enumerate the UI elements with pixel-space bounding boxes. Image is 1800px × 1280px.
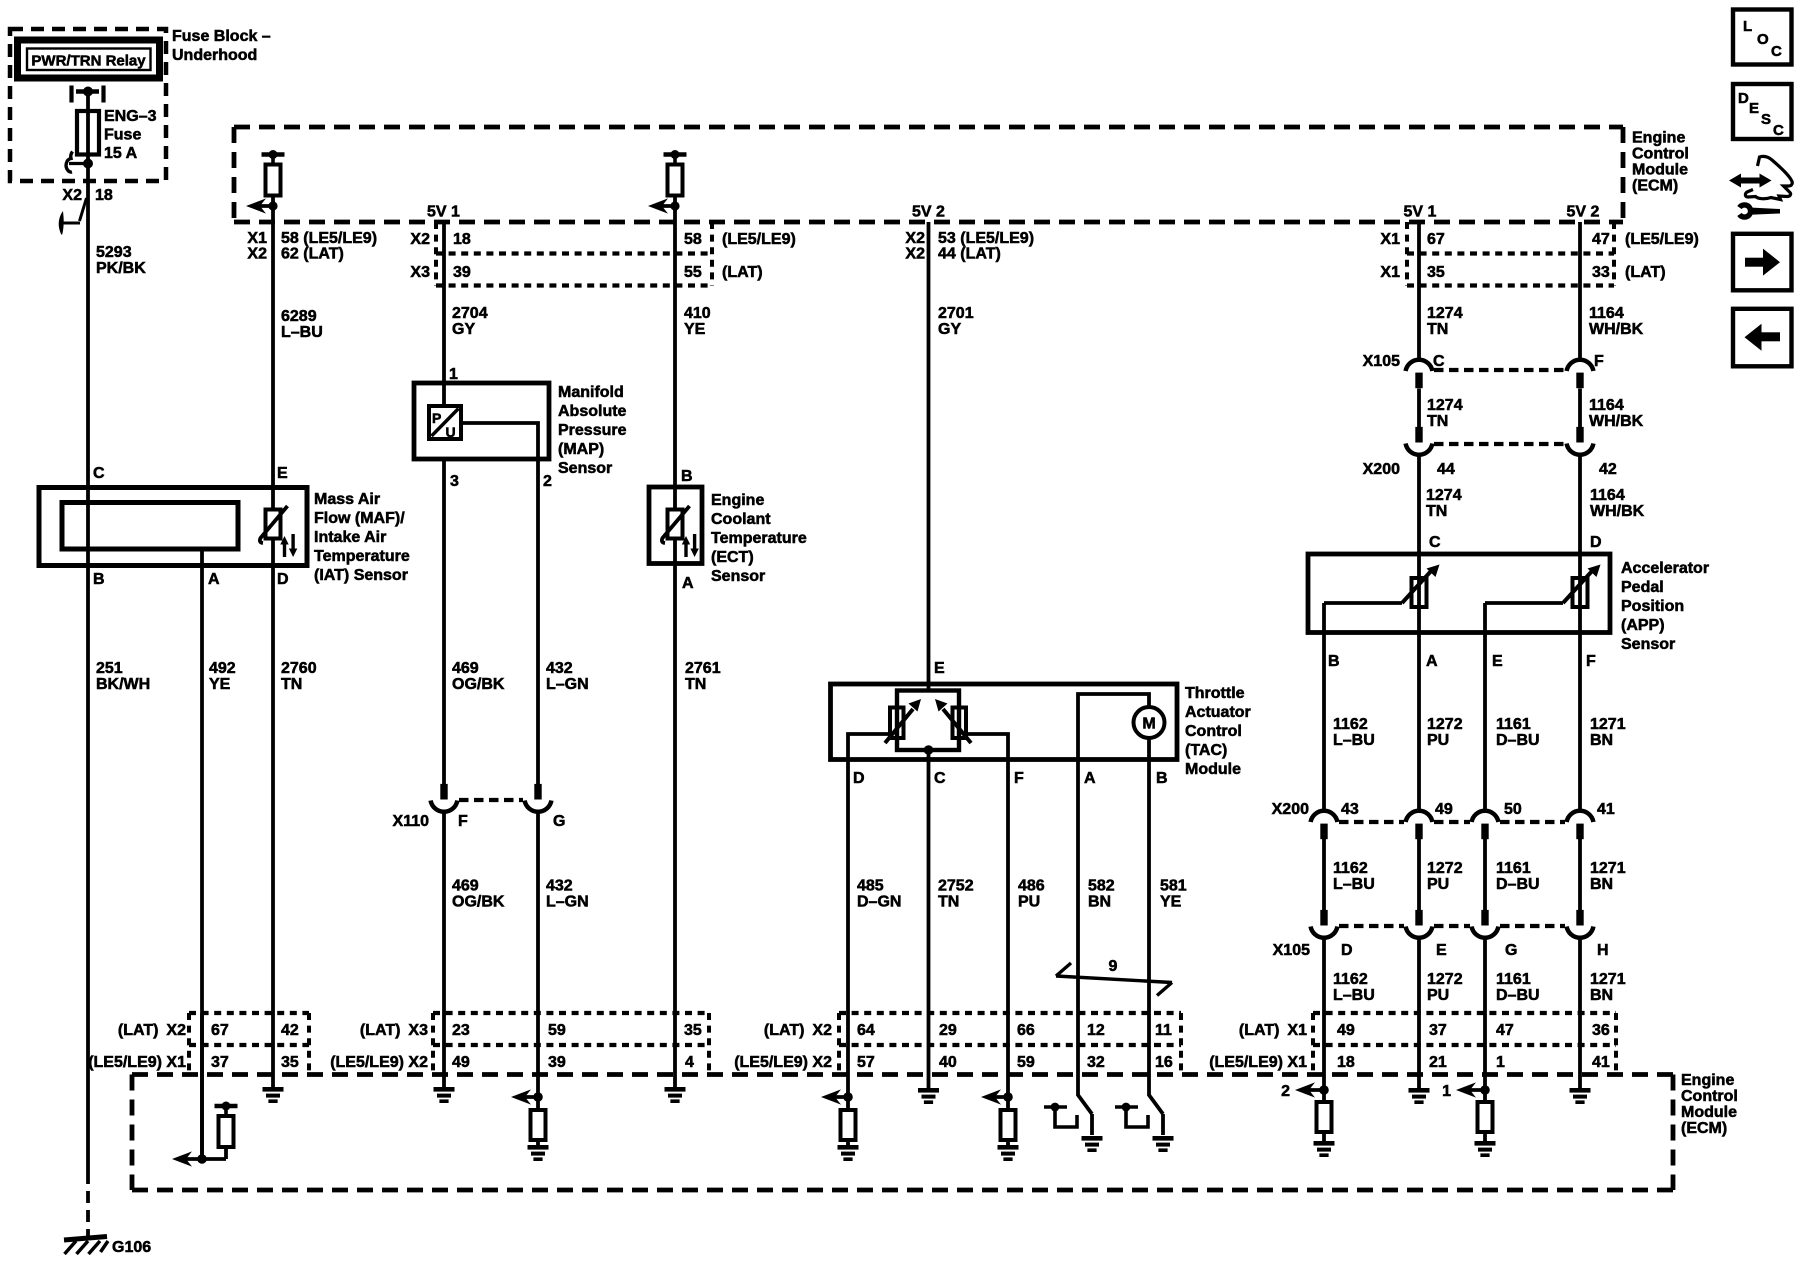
X200 dashed link top [1434,442,1565,446]
svg-text:1: 1 [449,366,458,383]
svg-text:C: C [93,465,105,482]
svg-text:D: D [1738,90,1749,107]
svg-text:Control: Control [1632,146,1689,163]
connector X200 41 [1567,811,1594,822]
svg-text:E: E [1749,100,1759,117]
svg-text:Mass Air: Mass Air [314,491,380,508]
ground under 1271 [1578,1074,1582,1088]
svg-text:E: E [277,465,288,482]
TAC D pin line [848,734,890,760]
svg-text:1164: 1164 [1590,487,1625,504]
svg-text:1161: 1161 [1496,971,1531,988]
svg-text:485: 485 [857,878,884,895]
svg-text:432: 432 [546,660,573,677]
svg-text:A: A [1084,770,1096,787]
svg-text:BK/WH: BK/WH [96,676,150,693]
wire 5293 PK/BK down to MAF pin C [86,164,90,488]
svg-text:(LE5/LE9) X2: (LE5/LE9) X2 [734,1054,832,1071]
svg-text:OG/BK: OG/BK [452,676,505,693]
svg-text:O: O [1757,31,1769,48]
svg-text:(LE5/LE9) X1: (LE5/LE9) X1 [88,1054,186,1071]
svg-text:66: 66 [1017,1022,1035,1039]
ground under 2761 [673,1074,677,1087]
junction arrow fuse ground under 486 [1006,1074,1010,1110]
svg-text:Throttle: Throttle [1185,685,1245,702]
svg-text:1164: 1164 [1589,305,1624,322]
wire 5V1 2704 GY from ECM to MAP pin 1 [442,222,446,383]
svg-text:TN: TN [1426,503,1447,520]
svg-text:4: 4 [685,1054,694,1071]
wire 2760 TN MAF pin D down [271,566,275,1014]
svg-text:X1: X1 [1380,231,1400,248]
connector X200 49 [1406,811,1433,822]
svg-text:B: B [1156,770,1168,787]
wire 410 YE to ECT pin B [673,206,677,487]
svg-text:(IAT) Sensor: (IAT) Sensor [314,567,408,584]
connector X200 44 [1415,427,1422,443]
svg-text:X2: X2 [905,246,925,263]
svg-text:37: 37 [211,1054,229,1071]
svg-text:44 (LAT): 44 (LAT) [938,246,1001,263]
svg-text:(ECM): (ECM) [1681,1120,1727,1137]
svg-text:PWR/TRN Relay: PWR/TRN Relay [31,53,146,70]
wire 1274 TN upper [1417,222,1421,360]
svg-text:(ECM): (ECM) [1632,178,1678,195]
right connector row box X1 67/35 47/33 [1405,222,1409,286]
IAT thermistor [271,488,275,511]
svg-text:Engine: Engine [711,492,764,509]
junction 1 arrow fuse ground under 1161 [1483,1074,1487,1102]
TAC right variable resistor [953,708,967,739]
svg-text:(LAT): (LAT) [1625,264,1666,281]
svg-text:L–BU: L–BU [1333,987,1375,1004]
junction arrow fuse ground under 485 [846,1074,850,1110]
svg-text:44: 44 [1437,461,1455,478]
svg-text:29: 29 [939,1022,957,1039]
svg-text:(LAT) X3: (LAT) X3 [360,1022,428,1039]
svg-text:18: 18 [1337,1054,1355,1071]
svg-text:X105: X105 [1363,353,1400,370]
wire 581 YE [1147,760,1151,1014]
wire 582 BN [1076,760,1080,1014]
svg-text:GY: GY [452,321,475,338]
svg-text:64: 64 [857,1022,875,1039]
svg-text:D: D [853,770,865,787]
connector row box X2/X3 18 39 [434,222,438,286]
svg-text:582: 582 [1088,878,1115,895]
wire 2701 GY 5V2 to TAC pin E [927,222,931,692]
svg-text:1271: 1271 [1590,971,1626,988]
svg-text:2: 2 [1281,1083,1290,1100]
arrow left at 410 fuse [648,198,668,213]
svg-text:40: 40 [939,1054,957,1071]
wire 2752 TN [927,750,931,1013]
svg-text:B: B [1328,653,1340,670]
wire 1164 WH/BK upper [1578,222,1582,360]
svg-text:(LAT) X2: (LAT) X2 [118,1022,186,1039]
svg-text:BN: BN [1590,987,1613,1004]
svg-text:12: 12 [1087,1022,1105,1039]
svg-text:2752: 2752 [938,878,974,895]
connector X200 42 [1576,427,1583,443]
svg-text:(APP): (APP) [1621,617,1665,634]
svg-text:X1: X1 [1380,264,1400,281]
svg-text:TN: TN [685,676,706,693]
svg-text:BN: BN [1590,732,1613,749]
svg-text:62 (LAT): 62 (LAT) [281,246,344,263]
svg-text:A: A [208,571,220,588]
svg-text:3: 3 [450,473,459,490]
TAC F pin line [966,734,1008,760]
svg-text:36: 36 [1592,1022,1610,1039]
svg-text:TN: TN [281,676,302,693]
svg-text:TN: TN [1427,413,1448,430]
X105 dashed link top [1434,368,1565,372]
svg-text:2760: 2760 [281,660,317,677]
svg-text:D: D [277,571,289,588]
svg-text:18: 18 [453,231,471,248]
wire 2761 TN ECT pin A down [673,564,677,1014]
svg-text:Sensor: Sensor [558,460,612,477]
svg-text:2701: 2701 [938,305,974,322]
svg-text:581: 581 [1160,878,1187,895]
svg-text:Engine: Engine [1681,1072,1734,1089]
svg-text:Temperature: Temperature [314,548,410,565]
svg-text:1272: 1272 [1427,860,1463,877]
svg-text:(LE5/LE9) X2: (LE5/LE9) X2 [330,1054,428,1071]
svg-text:41: 41 [1592,1054,1610,1071]
icon arrow left box [1733,309,1792,367]
svg-text:16: 16 [1155,1054,1173,1071]
connector X105 C [1406,360,1433,371]
TAC module box [831,684,1178,760]
svg-text:F: F [1594,353,1604,370]
junction 2 arrow fuse ground under 1162 [1322,1074,1326,1102]
MAP internal wire pin2 [461,423,538,459]
svg-text:469: 469 [452,660,479,677]
svg-text:E: E [1492,653,1503,670]
svg-text:S: S [1761,111,1771,128]
svg-text:1161: 1161 [1496,860,1531,877]
svg-text:486: 486 [1018,878,1045,895]
wire 1162 L-BU [1322,633,1326,812]
svg-text:WH/BK: WH/BK [1589,413,1644,430]
icon arrow right box [1733,234,1792,290]
svg-text:35: 35 [684,1022,702,1039]
svg-text:Accelerator: Accelerator [1621,560,1709,577]
wire 432 L-GN MAP pin2 to X110 [536,459,540,785]
svg-text:49: 49 [452,1054,470,1071]
svg-text:Underhood: Underhood [172,47,257,64]
svg-text:(LAT): (LAT) [722,264,763,281]
ECT thermistor [673,487,677,510]
ECM top dashed box [234,125,1623,130]
svg-text:(ECT): (ECT) [711,549,754,566]
row pass wires [200,1013,204,1074]
svg-text:Sensor: Sensor [711,568,765,585]
svg-text:50: 50 [1504,801,1522,818]
svg-text:1162: 1162 [1333,716,1368,733]
svg-text:35: 35 [281,1054,299,1071]
svg-text:BN: BN [1590,876,1613,893]
switch symbol under 582 [1076,1074,1080,1096]
svg-text:67: 67 [211,1022,229,1039]
svg-text:410: 410 [684,305,711,322]
ECT sensor box [649,487,702,564]
svg-text:Manifold: Manifold [558,384,624,401]
connector X200 43 [1311,811,1338,822]
ground under 2752 [927,1074,931,1088]
svg-text:YE: YE [684,321,706,338]
svg-text:C: C [1429,534,1441,551]
svg-text:TN: TN [1427,321,1448,338]
svg-text:C: C [934,770,946,787]
svg-text:H: H [1597,942,1609,959]
svg-text:U: U [446,424,456,440]
svg-text:GY: GY [938,321,961,338]
bottom rows group1 LAT X2 / LE5LE9 X1 [187,1013,191,1074]
svg-text:G: G [1505,942,1517,959]
svg-text:X3: X3 [410,264,430,281]
svg-text:YE: YE [209,676,231,693]
svg-text:Sensor: Sensor [1621,636,1675,653]
svg-text:39: 39 [548,1054,566,1071]
svg-text:35: 35 [1427,264,1445,281]
svg-text:(LAT) X1: (LAT) X1 [1239,1022,1307,1039]
svg-text:55: 55 [684,264,702,281]
svg-text:5V 1: 5V 1 [1404,204,1437,221]
svg-text:Engine: Engine [1632,130,1685,147]
svg-text:L–BU: L–BU [281,324,323,341]
svg-text:PK/BK: PK/BK [96,260,146,277]
svg-text:Fuse Block –: Fuse Block – [172,28,271,45]
svg-text:11: 11 [1155,1022,1172,1039]
svg-text:PU: PU [1427,876,1449,893]
APP sensor box [1308,554,1610,633]
svg-text:492: 492 [209,660,236,677]
svg-text:E: E [1436,942,1447,959]
ground G106 [64,1237,107,1241]
MAP P/U element [442,383,446,407]
svg-text:Intake Air: Intake Air [314,529,386,546]
X110 dashed link [459,798,523,802]
svg-text:Flow (MAF)/: Flow (MAF)/ [314,510,405,527]
svg-text:L–GN: L–GN [546,676,589,693]
svg-text:Pedal: Pedal [1621,579,1664,596]
svg-text:D–BU: D–BU [1496,876,1540,893]
svg-text:D–BU: D–BU [1496,732,1540,749]
svg-text:6289: 6289 [281,308,317,325]
svg-text:PU: PU [1427,732,1449,749]
svg-text:A: A [1426,653,1438,670]
fuse symbol in ECM for 410 wire [664,152,687,157]
wire 469 OG/BK MAP pin3 to X110 [442,459,446,785]
MAF inner element box [62,503,238,550]
svg-text:1164: 1164 [1589,397,1624,414]
svg-text:47: 47 [1592,231,1610,248]
svg-text:Temperature: Temperature [711,530,807,547]
svg-text:X105: X105 [1273,942,1310,959]
wire 251 BK/WH MAF pin B down [86,566,90,1173]
svg-text:58 (LE5/LE9): 58 (LE5/LE9) [281,230,377,247]
wire 1161 D-BU [1483,633,1487,812]
svg-text:1162: 1162 [1333,860,1368,877]
switch symbol under 581 [1147,1074,1151,1096]
svg-text:ENG–3: ENG–3 [104,108,157,125]
svg-text:X2: X2 [410,231,430,248]
TAC left variable resistor [890,708,904,739]
svg-text:X2: X2 [247,246,267,263]
fuse symbol in ECM for 6289 wire [262,152,285,157]
svg-text:1271: 1271 [1590,716,1626,733]
icon LOC box [1733,10,1792,65]
fuse block underhood dashed box [10,29,166,181]
svg-text:(LE5/LE9) X1: (LE5/LE9) X1 [1209,1054,1307,1071]
svg-text:Actuator: Actuator [1185,704,1251,721]
X105 bottom dashed links [1339,924,1404,928]
wire 492 YE MAF pin A down [200,566,204,1160]
svg-text:5V 1: 5V 1 [427,204,460,221]
svg-text:B: B [93,571,105,588]
svg-text:1: 1 [1496,1054,1505,1071]
svg-text:(LAT) X2: (LAT) X2 [764,1022,832,1039]
bottom rows group3 LAT X2 / LE5LE9 X2 [837,1013,841,1074]
svg-text:Control: Control [1185,723,1242,740]
wire 485 D-GN [846,760,850,1014]
svg-text:1274: 1274 [1427,305,1463,322]
svg-text:Coolant: Coolant [711,511,771,528]
junction arrow fuse ground under 432 [536,1074,540,1110]
svg-text:2761: 2761 [685,660,721,677]
svg-text:5V 2: 5V 2 [1567,204,1600,221]
svg-text:BN: BN [1088,894,1111,911]
svg-text:D–GN: D–GN [857,894,901,911]
wire 1271 BN [1578,633,1582,812]
svg-text:2704: 2704 [452,305,488,322]
svg-text:432: 432 [546,878,573,895]
APP right potentiometer [1578,554,1582,633]
svg-text:G: G [553,813,565,830]
svg-text:1274: 1274 [1427,397,1463,414]
wire 492 tail and pull-up fuse bottom-left [200,1074,204,1159]
svg-text:X200: X200 [1272,801,1309,818]
connector X105 H [1576,910,1583,926]
svg-text:Pressure: Pressure [558,422,627,439]
connector X200 50 [1472,811,1499,822]
svg-text:C: C [1433,353,1445,370]
svg-text:G106: G106 [112,1239,151,1256]
X200 bottom dashed links [1339,820,1404,824]
ground under 2760 TN [271,1074,275,1087]
relay terminal [69,86,73,103]
svg-text:37: 37 [1429,1022,1447,1039]
svg-text:39: 39 [453,264,471,281]
svg-text:2: 2 [543,473,552,490]
svg-text:(MAP): (MAP) [558,441,604,458]
icon hand with arrow and wrench [1729,174,1772,188]
connector X105 E [1415,910,1422,926]
svg-text:L–BU: L–BU [1333,876,1375,893]
svg-text:21: 21 [1429,1054,1447,1071]
svg-text:F: F [458,813,468,830]
svg-text:58: 58 [684,231,702,248]
svg-text:F: F [1586,653,1596,670]
svg-text:YE: YE [1160,894,1182,911]
svg-text:57: 57 [857,1054,875,1071]
fuse ENG-3 15A [77,111,99,155]
svg-text:1: 1 [1442,1083,1451,1100]
svg-text:5293: 5293 [96,244,132,261]
svg-text:C: C [1773,122,1784,139]
ground under 1272 [1417,1074,1421,1088]
TAC motor M [1078,694,1149,760]
svg-text:X200: X200 [1363,461,1400,478]
wire 486 PU [1006,760,1010,1014]
svg-text:1272: 1272 [1427,716,1463,733]
svg-text:41: 41 [1597,801,1615,818]
relay PWR/TRN [18,40,160,78]
svg-text:P: P [432,410,441,426]
svg-text:43: 43 [1341,801,1359,818]
svg-text:D: D [1341,942,1353,959]
connector X110 F [440,784,447,800]
svg-text:15 A: 15 A [104,145,138,162]
svg-text:D–BU: D–BU [1496,987,1540,1004]
svg-text:A: A [682,575,694,592]
svg-text:59: 59 [548,1022,566,1039]
svg-text:C: C [1771,43,1782,60]
svg-text:L: L [1743,18,1752,35]
svg-text:D: D [1590,534,1602,551]
svg-text:TN: TN [938,894,959,911]
svg-text:X110: X110 [393,813,430,830]
svg-text:(LE5/LE9): (LE5/LE9) [722,231,796,248]
svg-text:49: 49 [1337,1022,1355,1039]
wire 6289 L-BU from ECM to MAF pin E [271,206,275,488]
svg-text:47: 47 [1496,1022,1514,1039]
svg-text:53 (LE5/LE9): 53 (LE5/LE9) [938,230,1034,247]
arrow to left at 6289 fuse [246,198,266,213]
MAP sensor box [414,383,549,459]
svg-text:Module: Module [1681,1104,1737,1121]
svg-text:251: 251 [96,660,123,677]
svg-text:WH/BK: WH/BK [1589,321,1644,338]
svg-text:L–GN: L–GN [546,894,589,911]
wire 251 dashed tail to G106 [86,1172,90,1238]
svg-text:5V 2: 5V 2 [912,204,945,221]
connector X105 G [1481,910,1488,926]
svg-text:L–BU: L–BU [1333,732,1375,749]
connector X110 G [534,784,541,800]
svg-text:X1: X1 [247,230,267,247]
icon DESC box [1733,84,1792,139]
MAF IAT sensor box [39,488,307,566]
svg-text:B: B [681,468,693,485]
svg-text:Module: Module [1185,761,1241,778]
TAC E junction [924,745,934,755]
svg-text:PU: PU [1018,894,1040,911]
MAF pin wires bottom [86,488,90,566]
bottom rows group4 LAT X1 / LE5LE9 X1 [1311,1013,1315,1074]
svg-text:1272: 1272 [1427,971,1463,988]
wire 1272 PU [1417,633,1421,812]
svg-text:Absolute: Absolute [558,403,627,420]
svg-text:49: 49 [1435,801,1453,818]
svg-text:59: 59 [1017,1054,1035,1071]
svg-text:9: 9 [1109,958,1118,975]
svg-text:32: 32 [1087,1054,1105,1071]
svg-text:F: F [1014,770,1024,787]
